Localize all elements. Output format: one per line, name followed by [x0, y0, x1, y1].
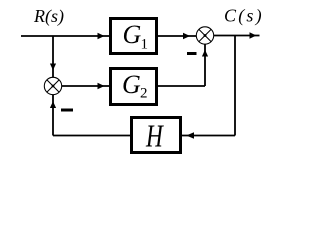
svg-text:G: G — [123, 20, 142, 49]
svg-text:G: G — [122, 70, 141, 99]
svg-text:C(s): C(s) — [224, 6, 264, 27]
svg-text:1: 1 — [141, 37, 149, 53]
svg-text:2: 2 — [140, 86, 148, 102]
svg-text:R(s): R(s) — [33, 6, 64, 27]
svg-text:H: H — [145, 118, 164, 153]
